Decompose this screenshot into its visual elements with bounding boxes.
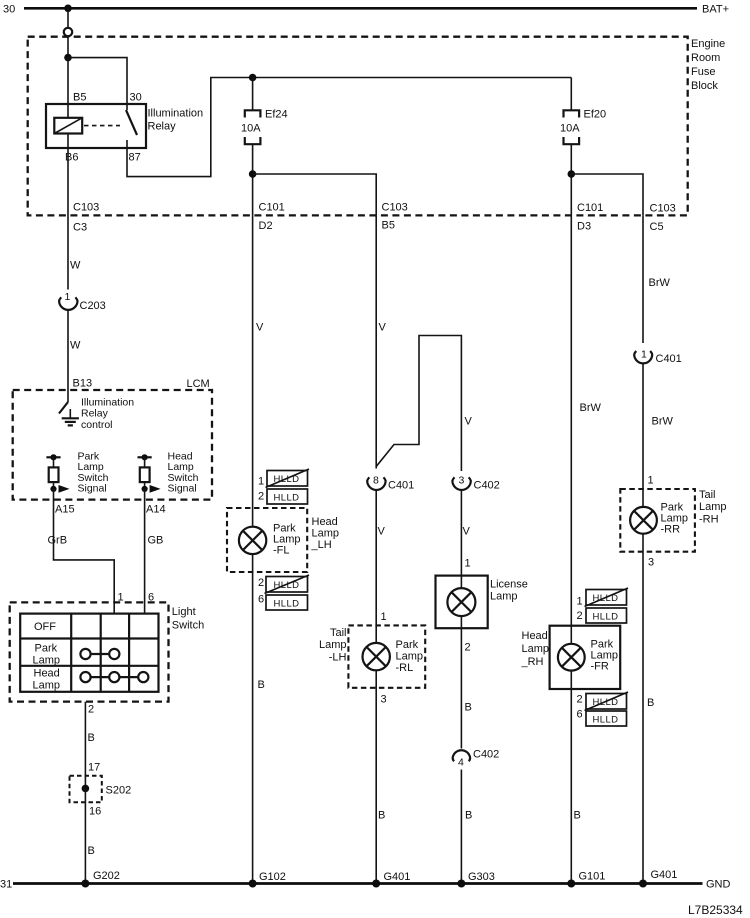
svg-text:W: W — [70, 260, 81, 272]
park lamp switch signal label — [78, 451, 109, 495]
wire Ef24 output over to B5 column — [253, 174, 377, 215]
head lamp switch signal driver — [138, 454, 161, 493]
svg-text:B5: B5 — [382, 220, 395, 232]
LCM illumination relay control switch — [59, 390, 68, 414]
svg-text:C402: C402 — [474, 480, 500, 492]
svg-text:2: 2 — [577, 694, 583, 706]
tail lamp LH label — [319, 627, 347, 664]
head lamp RH box — [550, 626, 621, 689]
connector label C103 / C5 — [650, 203, 676, 234]
park lamp RR bulb — [630, 507, 657, 534]
tail lamp LH dashed box — [348, 625, 425, 687]
license lamp box — [436, 576, 488, 629]
wire relay 87 up and over to fuses — [127, 78, 571, 177]
svg-text:2: 2 — [258, 577, 264, 589]
junction on top rail — [64, 5, 72, 13]
svg-text:C101: C101 — [577, 202, 603, 214]
ground G101 junction — [567, 880, 575, 888]
svg-text:87: 87 — [129, 152, 141, 164]
svg-text:Park: Park — [35, 643, 58, 655]
svg-text:C103: C103 — [650, 203, 676, 215]
svg-text:-RR: -RR — [661, 524, 681, 536]
svg-text:1: 1 — [258, 476, 264, 488]
wire relay B6 down through C103/C3 — [67, 134, 69, 290]
svg-text:G101: G101 — [579, 871, 606, 883]
park lamp FR label — [591, 639, 619, 673]
svg-text:GrB: GrB — [48, 535, 68, 547]
svg-text:1: 1 — [641, 349, 647, 361]
junction feeding relay coil and contact — [64, 54, 72, 62]
HLLD option box — [267, 489, 308, 504]
svg-text:Lamp: Lamp — [396, 651, 424, 663]
wire fuse Ef20 output — [570, 144, 572, 215]
wire park lamp FL to G102, color B — [252, 554, 254, 883]
svg-text:3: 3 — [459, 475, 465, 487]
ground G401 junction — [372, 880, 380, 888]
svg-text:HLLD: HLLD — [593, 715, 619, 726]
relay label — [148, 108, 204, 133]
park lamp switch signal driver — [46, 454, 69, 493]
svg-text:BrW: BrW — [652, 416, 674, 428]
LCM dashed box — [13, 390, 212, 500]
wire C101 D3 down, color BrW — [570, 215, 572, 644]
svg-text:B6: B6 — [65, 152, 78, 164]
svg-text:Lamp: Lamp — [522, 643, 550, 655]
wire light switch to S202, color B — [84, 702, 86, 789]
svg-text:B: B — [88, 732, 95, 744]
svg-text:16: 16 — [89, 806, 101, 818]
HLLD option box crossed — [585, 588, 629, 607]
svg-text:HLLD: HLLD — [593, 593, 619, 604]
connector C402 symbol — [452, 477, 470, 490]
light switch dashed box — [10, 602, 169, 701]
svg-text:Illumination: Illumination — [148, 108, 204, 120]
svg-text:GB: GB — [148, 535, 164, 547]
svg-text:Head: Head — [522, 630, 548, 642]
light switch park row contacts — [80, 649, 119, 659]
svg-text:C401: C401 — [388, 480, 414, 492]
head lamp switch signal label — [168, 451, 199, 495]
wire S202 to G202, color B — [84, 788, 86, 883]
svg-text:Signal: Signal — [78, 483, 107, 495]
svg-text:17: 17 — [88, 762, 100, 774]
wire C402 to G303, color B — [460, 770, 462, 884]
junction below Ef24 — [249, 170, 257, 178]
svg-text:Lamp: Lamp — [699, 501, 727, 513]
light switch head row contacts — [80, 672, 148, 682]
svg-text:V: V — [379, 322, 387, 334]
svg-text:_LH: _LH — [311, 539, 332, 551]
svg-text:G401: G401 — [384, 871, 411, 883]
svg-text:L7B25334: L7B25334 — [688, 903, 743, 917]
connector label C101 / D2 — [259, 202, 285, 233]
wire license lamp down, color B — [460, 616, 462, 748]
svg-text:-FL: -FL — [273, 545, 290, 557]
svg-text:D3: D3 — [577, 221, 591, 233]
wire C103 C5 down, color BrW — [642, 215, 644, 343]
svg-text:2: 2 — [88, 704, 94, 716]
svg-text:Park: Park — [396, 639, 419, 651]
svg-text:C5: C5 — [650, 221, 664, 233]
svg-text:_RH: _RH — [521, 656, 544, 668]
svg-text:6: 6 — [258, 594, 264, 606]
wire C401 to tail lamp RH, color BrW — [642, 364, 644, 507]
connector C203 symbol — [59, 297, 77, 310]
svg-text:Lamp: Lamp — [312, 528, 340, 540]
svg-text:GND: GND — [706, 879, 731, 891]
svg-text:Relay: Relay — [81, 408, 109, 420]
svg-text:V: V — [256, 322, 264, 334]
park lamp RL bulb — [363, 643, 390, 670]
svg-text:-RL: -RL — [396, 662, 414, 674]
svg-text:D2: D2 — [259, 220, 273, 232]
svg-text:1: 1 — [577, 596, 583, 608]
head lamp RH label — [521, 630, 550, 668]
svg-text:3: 3 — [648, 557, 654, 569]
svg-text:G303: G303 — [468, 871, 495, 883]
svg-text:Room: Room — [691, 52, 720, 64]
wire junction down to relay pin B5 — [67, 58, 69, 118]
svg-text:HLLD: HLLD — [274, 493, 300, 504]
wire BAT+ top rail — [24, 7, 697, 10]
svg-text:2: 2 — [258, 491, 264, 503]
svg-text:Head: Head — [312, 516, 338, 528]
fuse Ef20 — [564, 110, 580, 144]
svg-text:1: 1 — [465, 558, 471, 570]
license lamp bulb — [447, 588, 475, 616]
HLLD option box crossed — [585, 692, 629, 711]
svg-text:8: 8 — [373, 475, 379, 487]
connector C401 right symbol — [634, 351, 652, 363]
svg-text:B: B — [465, 810, 472, 822]
svg-text:V: V — [463, 526, 471, 538]
park lamp FR bulb — [558, 644, 585, 671]
svg-text:1: 1 — [65, 291, 71, 303]
svg-text:LCM: LCM — [187, 378, 210, 390]
svg-text:C103: C103 — [382, 202, 408, 214]
relay coil — [54, 118, 82, 134]
ground G102 junction — [249, 880, 257, 888]
svg-text:V: V — [465, 416, 473, 428]
wire from BAT+ rail down to fuse block — [67, 8, 69, 27]
svg-text:1: 1 — [648, 475, 654, 487]
svg-text:B: B — [378, 810, 385, 822]
svg-text:2: 2 — [465, 642, 471, 654]
HLLD option box — [586, 711, 627, 726]
svg-text:C101: C101 — [259, 202, 285, 214]
tail lamp RH dashed box — [620, 489, 695, 552]
svg-text:30: 30 — [3, 4, 15, 16]
svg-text:Head: Head — [34, 668, 60, 680]
engine room fuse block label — [691, 38, 725, 92]
wire A15 to light switch pin 1, color GrB — [54, 489, 115, 614]
svg-text:Lamp: Lamp — [319, 639, 347, 651]
svg-text:C402: C402 — [473, 749, 499, 761]
svg-text:HLLD: HLLD — [593, 697, 619, 708]
svg-text:3: 3 — [381, 694, 387, 706]
svg-text:G401: G401 — [651, 869, 678, 881]
connector C401 symbol — [367, 477, 385, 490]
svg-text:C401: C401 — [656, 353, 682, 365]
HLLD option box crossed — [266, 469, 310, 488]
junction feeding fuse Ef24 — [249, 74, 257, 82]
fuse Ef24 — [245, 110, 261, 144]
svg-text:-FR: -FR — [591, 661, 609, 673]
svg-text:-LH: -LH — [329, 652, 347, 664]
park lamp FL bulb — [239, 527, 266, 554]
svg-text:License: License — [490, 579, 528, 591]
wire branch to license lamp column — [376, 336, 461, 472]
svg-text:Lamp: Lamp — [33, 680, 61, 692]
ground G303 junction — [457, 880, 465, 888]
svg-text:1: 1 — [381, 611, 387, 623]
svg-text:BAT+: BAT+ — [702, 4, 729, 16]
svg-text:HLLD: HLLD — [274, 580, 300, 591]
svg-text:V: V — [378, 526, 386, 538]
svg-text:Signal: Signal — [168, 483, 197, 495]
wire GND bottom rail — [13, 882, 703, 885]
svg-text:A15: A15 — [55, 504, 75, 516]
svg-text:Block: Block — [691, 80, 718, 92]
svg-text:10A: 10A — [560, 123, 580, 135]
wire tail lamp RH to G401, color B — [642, 534, 644, 884]
svg-text:HLLD: HLLD — [593, 612, 619, 623]
splice S202 junction — [82, 785, 90, 793]
park lamp FL label — [273, 523, 301, 557]
wire to fuse Ef24 — [252, 78, 254, 111]
wire park lamp RL to G401, color B — [375, 670, 377, 883]
svg-text:control: control — [81, 419, 113, 431]
wire fuse Ef24 output — [252, 144, 254, 215]
tail lamp RH label — [699, 489, 727, 526]
illumination relay control label — [81, 397, 134, 432]
svg-text:OFF: OFF — [34, 621, 56, 633]
svg-text:BrW: BrW — [580, 402, 602, 414]
svg-text:G202: G202 — [93, 870, 120, 882]
junction below Ef20 — [568, 170, 576, 178]
wire junction to relay pin 30 — [68, 58, 127, 104]
license lamp label — [490, 579, 528, 603]
svg-text:W: W — [70, 340, 81, 352]
ground symbol inside LCM — [62, 409, 79, 425]
svg-text:Tail: Tail — [330, 627, 347, 639]
light switch label — [172, 606, 204, 632]
svg-text:B: B — [258, 679, 265, 691]
svg-text:B: B — [465, 702, 472, 714]
svg-text:C103: C103 — [73, 202, 99, 214]
connector label C101 / D3 — [577, 202, 603, 233]
wire C402 to license lamp, color V — [460, 490, 462, 588]
engine room fuse block dashed box — [28, 37, 688, 216]
svg-text:Engine: Engine — [691, 38, 725, 50]
HLLD option box — [586, 608, 627, 623]
svg-text:2: 2 — [577, 610, 583, 622]
svg-text:10A: 10A — [241, 123, 261, 135]
svg-text:HLLD: HLLD — [274, 474, 300, 485]
svg-text:Relay: Relay — [148, 121, 177, 133]
wire C103 B5 down, color V — [375, 215, 377, 468]
HLLD option box crossed — [265, 575, 310, 594]
wire C101 D2 down, color V — [252, 215, 254, 527]
svg-text:B: B — [88, 845, 95, 857]
svg-text:6: 6 — [577, 709, 583, 721]
svg-text:Ef20: Ef20 — [584, 109, 607, 121]
wire park lamp FR to G101, color B — [570, 671, 572, 884]
ground G401 right junction — [639, 880, 647, 888]
svg-text:B: B — [647, 697, 654, 709]
wire circle to junction — [67, 36, 69, 57]
svg-text:G102: G102 — [259, 871, 286, 883]
svg-text:Lamp: Lamp — [33, 655, 61, 667]
svg-text:Light: Light — [172, 606, 196, 618]
relay actuation dashed link — [84, 125, 120, 127]
svg-text:B13: B13 — [73, 378, 93, 390]
connector label C103 / B5 — [382, 202, 408, 232]
svg-text:HLLD: HLLD — [274, 599, 300, 610]
svg-text:Ef24: Ef24 — [265, 109, 288, 121]
HLLD option box — [266, 595, 308, 610]
svg-text:Switch: Switch — [172, 620, 204, 632]
svg-text:S202: S202 — [106, 785, 132, 797]
svg-text:4: 4 — [458, 757, 464, 769]
wire to fuse Ef20 — [570, 78, 572, 111]
illumination relay box — [46, 104, 146, 148]
svg-text:A14: A14 — [146, 504, 166, 516]
svg-text:B: B — [574, 810, 581, 822]
svg-text:C3: C3 — [73, 222, 87, 234]
svg-text:C203: C203 — [80, 300, 106, 312]
svg-text:Lamp: Lamp — [490, 591, 518, 603]
light switch row labels — [33, 621, 61, 692]
head lamp LH label — [311, 516, 340, 551]
connector C402 lower symbol — [453, 750, 470, 761]
splice S202 dashed box — [70, 776, 102, 802]
light switch table — [20, 614, 158, 692]
wire Ef20 output over to C5 column — [571, 174, 643, 215]
svg-text:Fuse: Fuse — [691, 66, 715, 78]
wire C203 to LCM B13 — [67, 310, 69, 390]
svg-text:30: 30 — [130, 92, 142, 104]
relay contact — [126, 104, 137, 148]
head lamp LH dashed box — [227, 508, 307, 572]
svg-text:31: 31 — [0, 879, 12, 891]
svg-text:BrW: BrW — [649, 277, 671, 289]
connector label C103 / C3 — [73, 202, 99, 234]
ground G202 junction — [81, 880, 89, 888]
svg-text:Tail: Tail — [699, 489, 716, 501]
svg-text:B5: B5 — [73, 92, 86, 104]
wire C401 to park lamp RL, color V — [375, 490, 377, 643]
park lamp RL label — [396, 639, 424, 674]
connector terminal circle into fuse block — [64, 28, 72, 36]
svg-text:-RH: -RH — [699, 514, 719, 526]
wire A14 to light switch pin 6, color GB — [144, 489, 146, 614]
park lamp RR label — [661, 502, 689, 536]
